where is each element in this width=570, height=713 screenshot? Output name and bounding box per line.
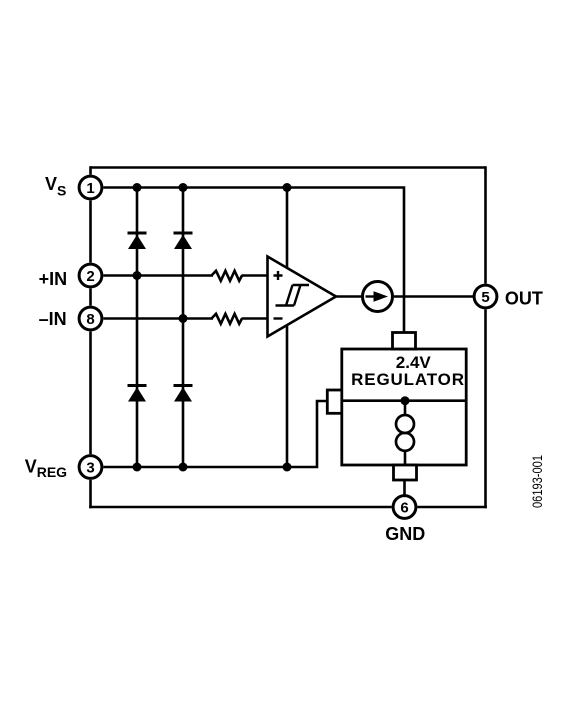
wire dot to current source bbox=[404, 401, 407, 416]
wire column2 vertical bbox=[182, 188, 185, 468]
wire left pin1 to pin2 bbox=[89, 200, 92, 262]
svg-text:06193-001: 06193-001 bbox=[529, 455, 545, 508]
wire pad to pin6 bbox=[403, 480, 406, 495]
svg-text:OUT: OUT bbox=[505, 288, 543, 308]
wire current source to box bottom bbox=[404, 451, 407, 465]
resistor R1 bbox=[212, 271, 243, 281]
border frame bottom right bbox=[417, 506, 486, 509]
pin 2 circle bbox=[79, 264, 102, 287]
svg-text:+IN: +IN bbox=[39, 269, 68, 289]
wire Vs rail with drop to regulator bbox=[103, 188, 404, 334]
svg-text:1: 1 bbox=[86, 180, 94, 197]
comparator hysteresis symbol bbox=[276, 285, 310, 306]
comparator minus sign bbox=[274, 317, 283, 319]
pin 5 circle bbox=[474, 285, 497, 308]
border frame left segment corner to pin1 bbox=[89, 166, 92, 174]
border frame right upper bbox=[484, 166, 487, 283]
node dot regulator internal bbox=[401, 396, 410, 405]
node dot VREG/column1 bbox=[133, 463, 142, 472]
pin 1 circle bbox=[79, 176, 102, 199]
diode D1 upper column1 bbox=[128, 233, 147, 249]
op-amp comparator U1 bbox=[268, 257, 337, 337]
svg-text:VS: VS bbox=[45, 174, 66, 199]
border frame right lower bbox=[484, 309, 487, 508]
wire comparator top supply bbox=[286, 188, 289, 269]
regulator top pad rect bbox=[393, 333, 416, 350]
svg-text:GND: GND bbox=[385, 524, 425, 544]
svg-text:VREG: VREG bbox=[25, 457, 67, 480]
wire output to pin5 bbox=[394, 295, 474, 298]
node dot VREG/column2 bbox=[179, 463, 188, 472]
wire VREG rail to regulator input bbox=[103, 401, 328, 467]
current source I2 circle lower bbox=[396, 433, 414, 451]
diode D4 lower column2 bbox=[174, 386, 193, 402]
svg-text:6: 6 bbox=[400, 499, 408, 516]
node dot Vs/column1 bbox=[133, 183, 142, 192]
wire left pin8 to pin3 bbox=[89, 331, 92, 454]
border frame bottom left bbox=[89, 506, 391, 509]
wire -IN rail right bbox=[242, 317, 269, 320]
node dot VREG/comparator supply bbox=[283, 463, 292, 472]
regulator block box bbox=[342, 349, 466, 465]
wire left pin3 to bottom corner bbox=[89, 480, 92, 508]
wire comparator output bbox=[336, 295, 363, 298]
pin 6 circle bbox=[393, 496, 416, 519]
wire left pin2 to pin8 bbox=[89, 288, 92, 305]
wire comparator bottom supply bbox=[286, 325, 289, 467]
diode D3 lower column1 bbox=[128, 386, 147, 402]
regulator divider line bbox=[342, 399, 466, 402]
diode D2 upper column2 bbox=[174, 233, 193, 249]
svg-text:5: 5 bbox=[481, 289, 489, 306]
regulator bottom pad rect bbox=[394, 465, 417, 480]
current source I1 circle bbox=[363, 282, 393, 312]
node dot Vs/comparator supply bbox=[283, 183, 292, 192]
node dot -IN/column2 bbox=[179, 314, 188, 323]
pin 8 circle bbox=[79, 307, 102, 330]
regulator input pad rect bbox=[327, 390, 343, 413]
svg-text:–IN: –IN bbox=[39, 309, 67, 329]
pin 3 circle bbox=[79, 456, 102, 479]
current source I1 arrow bbox=[366, 295, 378, 297]
comparator plus sign bbox=[274, 271, 283, 280]
current source I2 circle upper bbox=[396, 415, 414, 433]
node dot Vs/column2 bbox=[179, 183, 188, 192]
resistor R2 bbox=[212, 314, 243, 324]
wire +IN rail left bbox=[103, 274, 213, 277]
node dot +IN/column1 bbox=[133, 271, 142, 280]
wire column1 vertical bbox=[136, 188, 139, 468]
svg-text:2: 2 bbox=[86, 268, 94, 285]
wire -IN rail left bbox=[103, 317, 213, 320]
svg-text:REGULATOR: REGULATOR bbox=[351, 370, 465, 389]
svg-text:8: 8 bbox=[86, 311, 94, 328]
wire +IN rail right bbox=[242, 274, 269, 277]
svg-text:3: 3 bbox=[86, 459, 94, 476]
border frame top bbox=[91, 166, 486, 169]
